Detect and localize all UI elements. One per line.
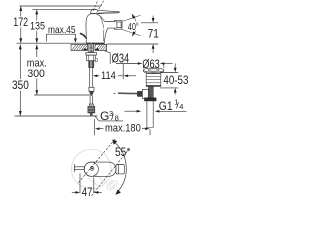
reference line lever top level bbox=[20, 5, 102, 7]
deck hatched left bbox=[71, 44, 88, 50]
svg-text:40°: 40° bbox=[128, 21, 139, 33]
top view popup rod stub bbox=[74, 164, 84, 172]
dimension 172 bbox=[13, 6, 28, 43]
svg-text:47: 47 bbox=[82, 185, 93, 199]
svg-text:max.180: max.180 bbox=[105, 122, 141, 134]
aerator inner box bbox=[114, 22, 121, 29]
faucet body bbox=[86, 13, 122, 43]
lever handle bbox=[91, 9, 120, 14]
hose joint bbox=[89, 87, 94, 95]
dimension 114 bbox=[93, 64, 136, 82]
second hose elbow bbox=[95, 59, 97, 62]
popup rod bbox=[81, 34, 87, 38]
dimension max.300 bbox=[27, 44, 47, 95]
svg-text:172: 172 bbox=[13, 17, 28, 29]
top view grey swung spout SE bbox=[88, 174, 119, 192]
rod ball nut bbox=[137, 91, 142, 97]
waste body bbox=[146, 73, 161, 86]
supply hose lower bbox=[90, 96, 92, 104]
svg-text:40-53: 40-53 bbox=[163, 75, 188, 87]
top view aerator bbox=[116, 165, 124, 174]
supply hose upper bbox=[90, 68, 93, 88]
svg-text:G: G bbox=[100, 109, 109, 123]
dimension max.180 bbox=[94, 119, 150, 135]
tick max.300 end bbox=[34, 94, 90, 96]
ball housing bbox=[142, 89, 148, 98]
reference line 135 level bbox=[33, 9, 97, 11]
label diameter 34 bbox=[105, 50, 129, 65]
dimension 350 bbox=[12, 44, 29, 116]
dimension 135 bbox=[30, 10, 45, 44]
text 40deg bbox=[127, 21, 139, 33]
svg-text:135: 135 bbox=[30, 21, 45, 33]
dimension 71 bbox=[107, 16, 159, 53]
top view spout capsule bbox=[84, 162, 116, 176]
deck hatched right bbox=[95, 44, 107, 50]
svg-text:350: 350 bbox=[12, 78, 29, 92]
popup lever rod bbox=[114, 92, 138, 94]
svg-text:71: 71 bbox=[148, 29, 159, 41]
waste flange bbox=[143, 68, 163, 74]
svg-text:8: 8 bbox=[115, 113, 119, 122]
top view center screw bbox=[90, 167, 94, 171]
svg-text:4: 4 bbox=[179, 102, 183, 111]
reference line base level bbox=[17, 42, 87, 44]
dimension diameter 63 bbox=[116, 59, 173, 71]
svg-text:300: 300 bbox=[27, 68, 45, 80]
lever raised dashed bbox=[93, 1, 104, 13]
pipe top dark section bbox=[148, 86, 153, 97]
tick 350 end bbox=[15, 115, 98, 117]
dimension max.45 bbox=[47, 24, 77, 43]
thread band G1 1/4 bbox=[144, 98, 156, 102]
swivel arc 55 bbox=[112, 140, 126, 195]
dashed swung spout NE edge 2 bbox=[92, 149, 130, 196]
threaded shank bbox=[89, 43, 94, 52]
label G3/8 bbox=[95, 109, 124, 123]
40 degree fan lines bbox=[122, 14, 140, 37]
svg-text:55°: 55° bbox=[115, 145, 131, 159]
svg-text:G1: G1 bbox=[159, 99, 173, 113]
text 55deg bbox=[115, 145, 131, 159]
top view grey circle bbox=[72, 149, 112, 189]
dashed swung spout NE edge 1 bbox=[78, 139, 115, 183]
hose end fitting G3/8 bbox=[88, 104, 95, 116]
label G1 1/4 bbox=[124, 97, 186, 113]
svg-text:Ø34: Ø34 bbox=[112, 50, 130, 65]
tailpipe bbox=[147, 101, 153, 127]
Ø34 arrows at deck hole bbox=[82, 48, 98, 51]
mounting nut bbox=[87, 55, 96, 61]
hose fitting dark bbox=[89, 61, 94, 68]
svg-text:114: 114 bbox=[101, 70, 116, 82]
dimension 40-53 bbox=[160, 64, 188, 95]
dimension 47 bbox=[72, 174, 102, 200]
washer under deck bbox=[86, 53, 97, 56]
